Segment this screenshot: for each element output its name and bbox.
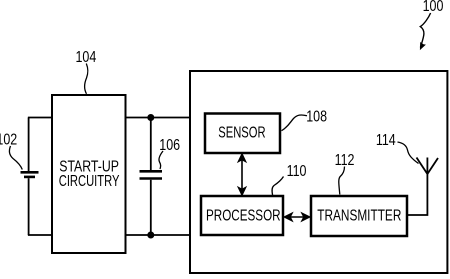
leader arrow for 100 [420, 13, 431, 50]
arrow sensor-processor [238, 154, 246, 196]
leader 112 [339, 167, 345, 195]
svg-text:108: 108 [306, 108, 327, 126]
transmitter box 112 [311, 196, 407, 236]
leader 104 [85, 64, 88, 94]
wire battery bottom to start-up box [28, 234, 52, 236]
leader 110 [272, 177, 283, 196]
leader 106 [159, 151, 163, 169]
start-up circuitry box 104 [52, 95, 126, 253]
leader 108 [282, 115, 308, 131]
battery 102 [21, 118, 39, 236]
wire start-up box to outer box (top) [126, 117, 191, 119]
wire start-up box to outer box (bottom) [126, 234, 191, 236]
junction dot bottom [147, 232, 154, 239]
svg-text:102: 102 [0, 131, 17, 149]
wire transmitter to antenna [407, 174, 427, 215]
svg-text:SENSOR: SENSOR [218, 123, 265, 142]
wire battery top to start-up box [28, 117, 52, 119]
svg-text:114: 114 [376, 132, 396, 150]
processor box 110 [201, 196, 283, 235]
capacitor 106 [140, 118, 163, 236]
svg-text:CIRCUITRY: CIRCUITRY [59, 171, 120, 190]
arrow processor-transmitter [284, 213, 310, 221]
leader 102 [9, 146, 22, 170]
svg-text:TRANSMITTER: TRANSMITTER [317, 206, 401, 224]
antenna 114 [417, 158, 439, 175]
junction dot top [147, 114, 154, 121]
leader 114 [398, 142, 419, 164]
svg-text:104: 104 [76, 48, 97, 66]
svg-text:PROCESSOR: PROCESSOR [206, 206, 281, 224]
sensor box 108 [205, 114, 280, 154]
outer system box 100 [190, 71, 447, 273]
svg-text:110: 110 [287, 163, 307, 181]
svg-text:100: 100 [423, 0, 444, 16]
